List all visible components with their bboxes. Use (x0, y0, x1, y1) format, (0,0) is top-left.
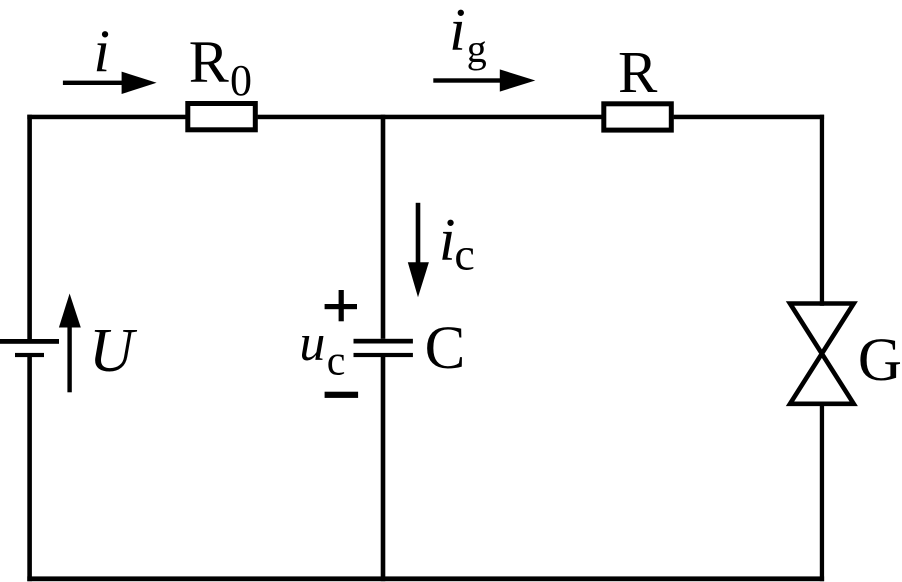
current arrow i (head) (122, 72, 157, 94)
svg-text:U: U (89, 317, 138, 385)
polarity mark - of uc (325, 392, 359, 398)
battery source U: long positive plate (0, 339, 59, 344)
svg-text:c: c (454, 228, 474, 279)
wire: left branch lower segment (U- to bottom) (27, 357, 32, 581)
svg-text:i: i (93, 18, 110, 84)
wire: middle branch lower segment (C to bottom) (381, 357, 386, 581)
current arrow ig (line) (433, 78, 508, 82)
svg-text:G: G (858, 327, 902, 394)
svg-text:i: i (449, 0, 466, 63)
svg-text:c: c (327, 338, 346, 384)
polarity mark + of uc (horizontal bar) (325, 304, 357, 309)
voltage source arrow U (line) (67, 320, 71, 392)
svg-text:u: u (299, 315, 325, 372)
svg-text:i: i (439, 206, 456, 272)
wire: bottom horizontal segment (common return) (27, 576, 824, 581)
wire: right branch upper segment (R to G) (820, 115, 824, 306)
wire: top-right horizontal segment (R to gap branch) (674, 115, 825, 120)
resistor R0 body (188, 104, 256, 130)
svg-text:0: 0 (230, 56, 252, 105)
wire: left branch upper segment (U+ to R0) (27, 115, 32, 339)
svg-text:g: g (467, 26, 487, 71)
resistor R body (604, 104, 672, 130)
capacitor C: top plate (354, 339, 413, 344)
current arrow ic (head) (408, 262, 429, 297)
polarity mark + of uc (vertical bar) (339, 290, 344, 321)
spark gap G body (bowtie) (790, 304, 854, 404)
capacitor C: bottom plate (354, 353, 413, 357)
wire: middle branch upper segment (node a to C) (381, 115, 386, 339)
svg-text:R: R (618, 39, 658, 105)
battery source U: short negative plate (15, 353, 44, 357)
wire: top-middle horizontal segment (R0 to R, node a) (258, 115, 602, 120)
svg-text:C: C (425, 315, 466, 382)
current arrow i (line) (63, 81, 138, 85)
svg-text:R: R (189, 29, 229, 95)
voltage source arrow U (head) (59, 294, 81, 328)
current arrow ic (line) (416, 203, 421, 275)
wire: right branch lower segment (G to bottom) (820, 404, 824, 581)
current arrow ig (head) (500, 69, 536, 91)
wire: top-left horizontal segment (source to R0) (27, 115, 185, 120)
